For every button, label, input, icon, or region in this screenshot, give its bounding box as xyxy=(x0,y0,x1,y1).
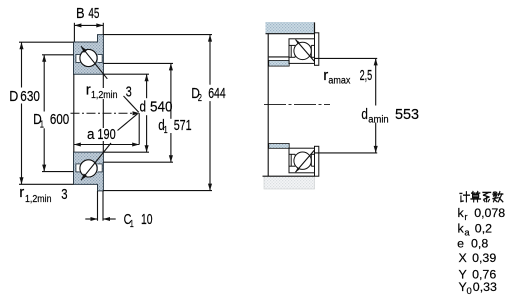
svg-text:644: 644 xyxy=(208,85,226,102)
svg-text:d: d xyxy=(361,106,368,123)
svg-text:X: X xyxy=(459,251,467,265)
svg-text:45: 45 xyxy=(88,5,99,22)
svg-text:0,33: 0,33 xyxy=(473,280,497,294)
svg-text:r: r xyxy=(19,184,24,201)
svg-text:3: 3 xyxy=(61,186,67,203)
svg-text:d: d xyxy=(140,98,147,115)
svg-text:amin: amin xyxy=(368,115,389,126)
svg-text:0: 0 xyxy=(467,286,472,297)
svg-text:540: 540 xyxy=(150,98,173,115)
svg-text:3: 3 xyxy=(126,83,132,100)
svg-text:1: 1 xyxy=(164,125,168,136)
svg-text:1,2min: 1,2min xyxy=(25,194,52,205)
svg-text:amax: amax xyxy=(328,76,350,87)
svg-text:190: 190 xyxy=(97,126,115,143)
svg-text:571: 571 xyxy=(174,117,192,134)
svg-text:a: a xyxy=(87,126,95,143)
svg-text:r: r xyxy=(464,212,467,223)
svg-text:600: 600 xyxy=(50,111,69,128)
svg-text:a: a xyxy=(464,227,470,238)
svg-text:2,5: 2,5 xyxy=(360,67,373,84)
svg-text:2: 2 xyxy=(198,93,203,104)
svg-text:e: e xyxy=(457,237,464,251)
svg-text:630: 630 xyxy=(20,88,40,105)
svg-text:0,39: 0,39 xyxy=(472,251,496,265)
svg-text:0,078: 0,078 xyxy=(474,206,505,220)
svg-text:553: 553 xyxy=(395,106,419,123)
svg-text:1,2min: 1,2min xyxy=(91,90,118,101)
svg-text:0,8: 0,8 xyxy=(471,237,488,251)
svg-text:B: B xyxy=(76,5,85,22)
svg-text:1: 1 xyxy=(40,119,45,130)
svg-text:1: 1 xyxy=(130,219,134,230)
svg-text:D: D xyxy=(9,88,18,105)
svg-text:0,2: 0,2 xyxy=(475,221,492,235)
svg-text:10: 10 xyxy=(141,211,153,228)
